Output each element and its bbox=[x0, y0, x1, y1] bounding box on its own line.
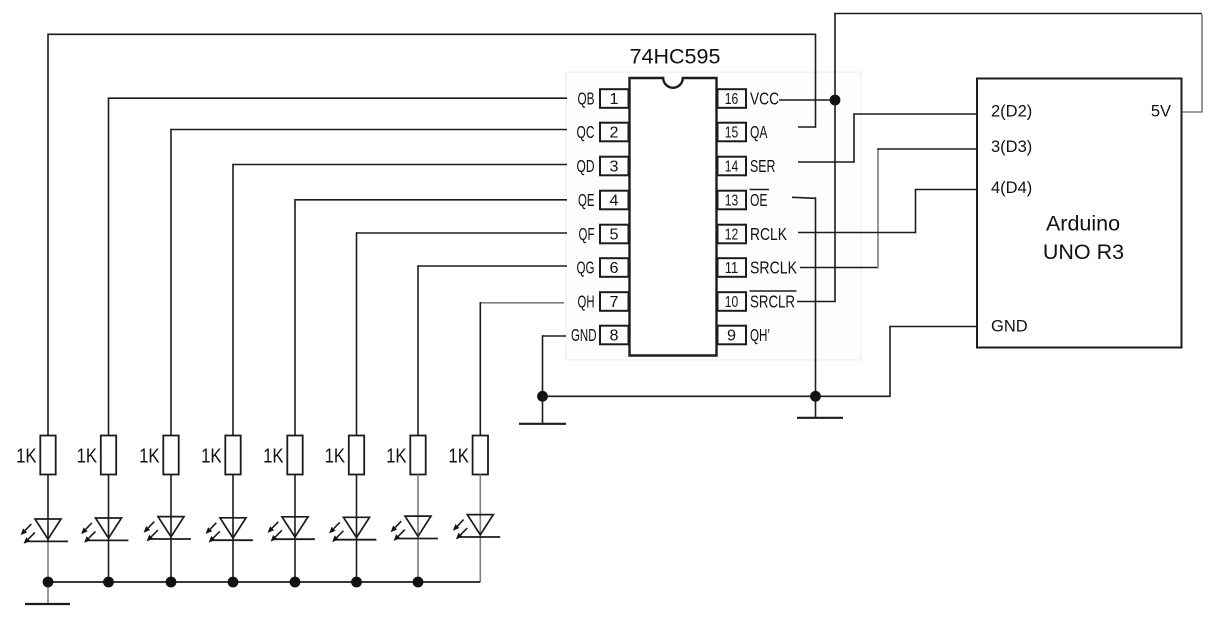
svg-text:14: 14 bbox=[725, 158, 739, 175]
svg-text:2: 2 bbox=[610, 124, 619, 141]
IC pin 7 box bbox=[600, 292, 629, 311]
IC pin 10 box bbox=[718, 292, 747, 311]
svg-text:QG: QG bbox=[577, 258, 595, 278]
LED D3 bbox=[144, 517, 191, 542]
LED D2 bbox=[81, 518, 128, 543]
LED D8 bbox=[453, 515, 500, 540]
wire resistor R1 to LED D1 and cathode bus bbox=[47, 475, 49, 604]
MCU Arduino UNO R3 box bbox=[977, 79, 1182, 348]
wire net SER: pin 14 to Arduino 2(D2) bbox=[798, 114, 985, 163]
Arduino title text bbox=[1043, 212, 1124, 264]
wire 5V pin riser (grey) bbox=[1182, 14, 1203, 112]
junction dot bus column 1 bbox=[43, 577, 54, 588]
wire net SRCLR: pin 10 tied to VCC bbox=[797, 101, 835, 302]
resistor R6 1K bbox=[325, 436, 365, 475]
svg-text:5V: 5V bbox=[1151, 103, 1171, 121]
svg-text:QA: QA bbox=[750, 122, 768, 142]
svg-text:8: 8 bbox=[610, 327, 619, 344]
IC pin 15 box bbox=[718, 123, 747, 142]
svg-text:UNO R3: UNO R3 bbox=[1043, 240, 1124, 264]
wire net SRCLK: pin 11 to Arduino 3(D3) bbox=[800, 149, 985, 268]
resistor R8 1K bbox=[448, 436, 488, 475]
junction dot bus column 3 bbox=[166, 577, 177, 588]
IC pin 8 box bbox=[600, 326, 629, 345]
IC pin 5 box bbox=[600, 225, 629, 244]
svg-text:SRCLR: SRCLR bbox=[750, 292, 795, 312]
svg-text:1K: 1K bbox=[386, 445, 407, 468]
svg-text:12: 12 bbox=[725, 226, 739, 243]
svg-text:1K: 1K bbox=[139, 445, 160, 468]
svg-text:1K: 1K bbox=[201, 445, 222, 468]
wire resistor R6 to LED D6 and cathode bus bbox=[356, 475, 358, 583]
svg-text:3(D3): 3(D3) bbox=[991, 138, 1032, 156]
resistor R2 1K bbox=[77, 436, 117, 475]
IC pin 13 box bbox=[718, 191, 747, 210]
ground bus wire to Arduino GND bbox=[543, 327, 986, 398]
junction dot OE at ground bus bbox=[810, 391, 821, 402]
resistor R7 1K bbox=[386, 436, 426, 475]
LED D4 bbox=[206, 518, 253, 543]
IC pin 2 box bbox=[600, 123, 629, 142]
ground symbol under OE bbox=[797, 396, 843, 418]
svg-text:6: 6 bbox=[610, 260, 619, 277]
svg-text:13: 13 bbox=[725, 192, 739, 209]
wire net QB: pin 1 to LED column 2 bbox=[109, 97, 568, 436]
svg-text:GND: GND bbox=[991, 318, 1028, 336]
svg-text:1: 1 bbox=[610, 91, 619, 108]
LED D5 bbox=[268, 517, 315, 542]
svg-text:QC: QC bbox=[577, 122, 595, 142]
wire VCC pin 16 to junction bbox=[779, 99, 835, 101]
IC pin 14 box bbox=[718, 157, 747, 176]
svg-text:4: 4 bbox=[610, 192, 619, 209]
wire net QA: pin 15 to LED column 1 (top long run) bbox=[48, 34, 816, 437]
svg-text:74HC595: 74HC595 bbox=[630, 45, 721, 69]
svg-text:QD: QD bbox=[577, 156, 595, 176]
wire net QC: pin 2 to LED column 3 bbox=[171, 129, 567, 436]
junction dot bus column 7 bbox=[413, 577, 424, 588]
svg-text:1K: 1K bbox=[16, 445, 37, 468]
svg-text:Arduino: Arduino bbox=[1046, 212, 1120, 236]
IC pin 9 box bbox=[718, 326, 747, 345]
svg-text:SER: SER bbox=[750, 156, 776, 176]
LED cathode bus wire bbox=[48, 581, 480, 583]
svg-text:2(D2): 2(D2) bbox=[991, 103, 1032, 121]
resistor R4 1K bbox=[201, 436, 241, 475]
wire net OE: pin 13 to ground bus bbox=[792, 197, 816, 396]
svg-text:QH: QH bbox=[578, 292, 595, 312]
IC pin 4 box bbox=[600, 191, 629, 210]
wire net QH: pin 7 to LED column 8 bbox=[480, 302, 564, 436]
junction dot VCC node bbox=[830, 95, 841, 106]
wire net RCLK: pin 12 to Arduino 4(D4) bbox=[798, 190, 985, 234]
LED D1 bbox=[21, 519, 68, 544]
svg-text:15: 15 bbox=[725, 124, 739, 141]
svg-text:9: 9 bbox=[727, 327, 736, 344]
wire resistor R7 to LED D7 and cathode bus bbox=[417, 475, 419, 583]
svg-text:1K: 1K bbox=[77, 445, 98, 468]
resistor R1 1K bbox=[16, 436, 56, 475]
IC pin 11 box bbox=[718, 258, 747, 277]
LED D7 bbox=[391, 516, 438, 541]
svg-text:QB: QB bbox=[578, 89, 595, 109]
wire resistor R2 to LED D2 and cathode bus bbox=[108, 475, 110, 583]
svg-text:1K: 1K bbox=[263, 445, 284, 468]
IC pin 16 box bbox=[718, 89, 747, 108]
svg-text:1K: 1K bbox=[448, 445, 469, 468]
IC pin 12 box bbox=[718, 225, 747, 244]
wire net QF: pin 5 to LED column 6 bbox=[357, 232, 568, 436]
wire net QG: pin 6 to LED column 7 bbox=[418, 265, 567, 436]
svg-text:RCLK: RCLK bbox=[750, 224, 787, 244]
svg-text:QF: QF bbox=[579, 224, 595, 244]
op IC U1 74HC595 body bbox=[630, 78, 717, 356]
svg-text:5: 5 bbox=[610, 226, 619, 243]
wire resistor R4 to LED D4 and cathode bus bbox=[232, 475, 234, 583]
svg-text:16: 16 bbox=[725, 91, 739, 108]
svg-text:QE: QE bbox=[578, 190, 595, 210]
svg-text:10: 10 bbox=[725, 294, 739, 311]
svg-text:SRCLK: SRCLK bbox=[750, 258, 797, 278]
wire resistor R8 to LED D8 and cathode bus bbox=[479, 475, 481, 583]
overline for SRCLR bbox=[750, 290, 797, 292]
junction dot bus column 5 bbox=[290, 577, 301, 588]
ground symbol at LED bus bbox=[25, 603, 70, 605]
svg-text:OE: OE bbox=[750, 190, 768, 210]
junction dot IC GND at ground bus bbox=[537, 391, 548, 402]
IC pin 6 box bbox=[600, 258, 629, 277]
svg-text:1K: 1K bbox=[325, 445, 346, 468]
svg-text:4(D4): 4(D4) bbox=[991, 179, 1032, 197]
wire VCC junction to top rail bbox=[834, 14, 1202, 101]
wire resistor R3 to LED D3 and cathode bus bbox=[170, 475, 172, 583]
svg-text:QH’: QH’ bbox=[750, 325, 770, 345]
wire net QD: pin 3 to LED column 4 bbox=[233, 164, 567, 436]
junction dot bus column 2 bbox=[103, 577, 114, 588]
svg-text:3: 3 bbox=[610, 158, 619, 175]
overline for OE bbox=[750, 189, 770, 191]
IC pin 3 box bbox=[600, 157, 629, 176]
ground symbol under IC bbox=[519, 396, 566, 424]
wire IC pin 8 GND to ground bus bbox=[543, 335, 567, 396]
IC image faint background box bbox=[566, 72, 861, 360]
IC pin 1 box bbox=[600, 89, 629, 108]
resistor R5 1K bbox=[263, 436, 303, 475]
svg-text:7: 7 bbox=[610, 294, 619, 311]
svg-text:11: 11 bbox=[725, 260, 739, 277]
svg-text:VCC: VCC bbox=[750, 89, 779, 109]
junction dot bus column 6 bbox=[351, 577, 362, 588]
wire net QE: pin 4 to LED column 5 bbox=[295, 199, 567, 436]
wire resistor R5 to LED D5 and cathode bus bbox=[294, 475, 296, 583]
junction dot bus column 4 bbox=[228, 577, 239, 588]
LED D6 bbox=[329, 517, 376, 542]
resistor R3 1K bbox=[139, 436, 179, 475]
svg-text:GND: GND bbox=[571, 325, 597, 345]
